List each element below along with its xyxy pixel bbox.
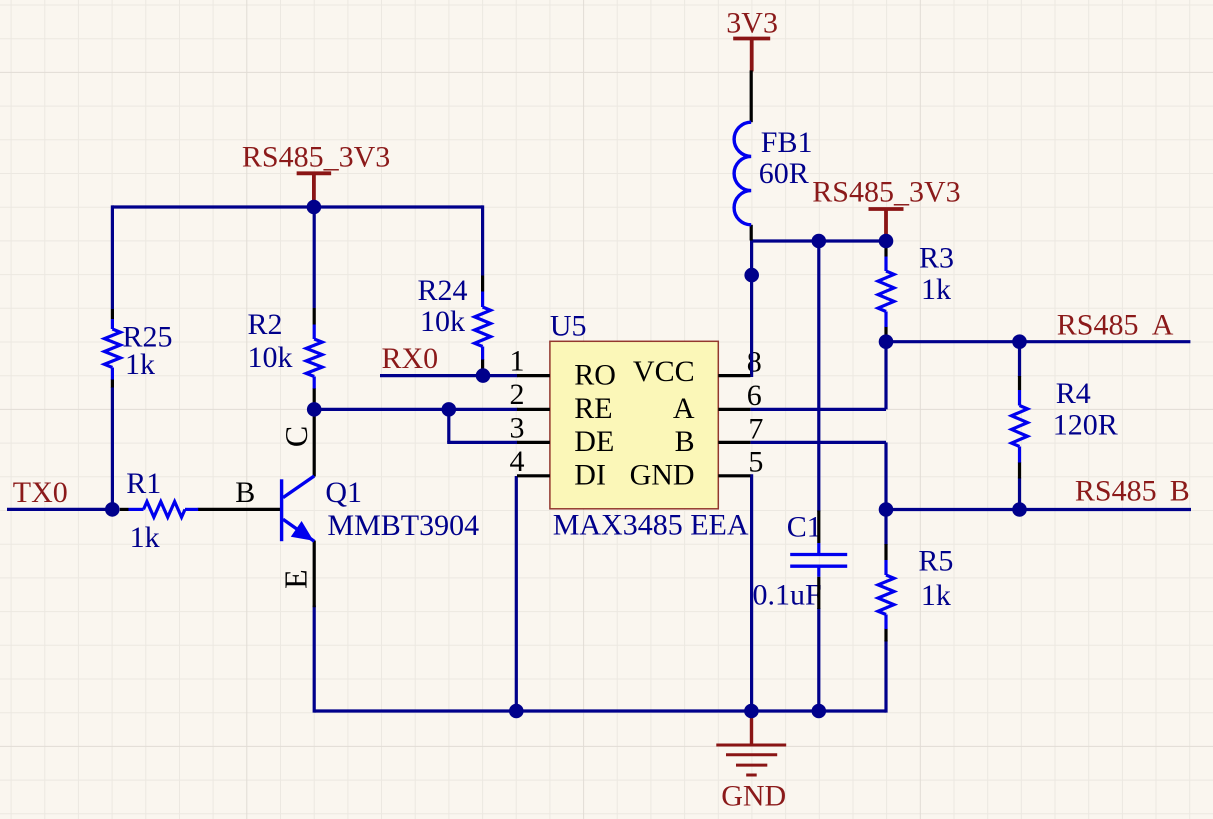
svg-text:DE: DE — [574, 425, 614, 458]
svg-text:120R: 120R — [1053, 408, 1118, 441]
svg-text:RS485: RS485 — [1057, 309, 1139, 342]
svg-text:RX0: RX0 — [382, 342, 439, 375]
svg-text:A: A — [1152, 309, 1174, 342]
svg-text:R2: R2 — [248, 308, 283, 341]
svg-text:MMBT3904: MMBT3904 — [327, 509, 479, 542]
svg-text:RS485_3V3: RS485_3V3 — [242, 141, 390, 174]
svg-text:R4: R4 — [1056, 377, 1091, 410]
svg-text:1: 1 — [510, 344, 525, 377]
svg-text:RE: RE — [574, 392, 612, 425]
svg-text:0.1uF: 0.1uF — [753, 579, 822, 612]
svg-text:2: 2 — [510, 378, 525, 411]
svg-text:R24: R24 — [418, 274, 468, 307]
svg-text:10k: 10k — [420, 305, 465, 338]
svg-text:B: B — [675, 425, 695, 458]
svg-text:4: 4 — [510, 445, 525, 478]
svg-text:GND: GND — [630, 459, 695, 492]
svg-text:C: C — [278, 426, 314, 447]
svg-text:MAX3485 EEA: MAX3485 EEA — [553, 509, 749, 542]
svg-text:3V3: 3V3 — [726, 6, 778, 39]
svg-text:RS485: RS485 — [1075, 474, 1157, 507]
svg-text:TX0: TX0 — [13, 476, 68, 509]
svg-text:1k: 1k — [125, 348, 155, 381]
svg-text:R3: R3 — [919, 242, 954, 275]
svg-text:1k: 1k — [921, 579, 951, 612]
svg-text:C1: C1 — [787, 510, 822, 543]
svg-text:GND: GND — [721, 779, 786, 812]
svg-text:A: A — [673, 392, 695, 425]
svg-text:R5: R5 — [918, 544, 953, 577]
svg-text:Q1: Q1 — [325, 476, 362, 509]
svg-text:3: 3 — [510, 411, 525, 444]
svg-text:7: 7 — [748, 412, 763, 445]
svg-text:10k: 10k — [248, 341, 293, 374]
svg-text:8: 8 — [747, 345, 762, 378]
svg-text:1k: 1k — [921, 273, 951, 306]
svg-text:DI: DI — [574, 459, 606, 492]
svg-text:RO: RO — [574, 358, 616, 391]
svg-text:1k: 1k — [130, 521, 160, 554]
svg-text:6: 6 — [747, 379, 762, 412]
svg-text:60R: 60R — [759, 157, 809, 190]
svg-text:VCC: VCC — [633, 355, 695, 388]
svg-text:R1: R1 — [126, 467, 161, 500]
svg-text:5: 5 — [748, 445, 763, 478]
svg-text:U5: U5 — [550, 310, 587, 343]
svg-text:FB1: FB1 — [761, 126, 813, 159]
svg-text:B: B — [1170, 474, 1190, 507]
svg-text:B: B — [235, 476, 255, 509]
svg-text:E: E — [278, 569, 314, 589]
svg-text:RS485_3V3: RS485_3V3 — [812, 175, 960, 208]
